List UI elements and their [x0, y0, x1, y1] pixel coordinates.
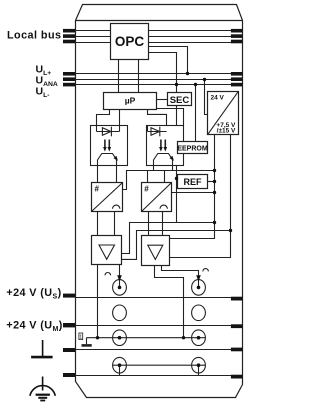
- svg-text:µP: µP: [125, 96, 136, 106]
- svg-text:/±15 V: /±15 V: [217, 128, 236, 135]
- svg-text:#: #: [144, 185, 149, 194]
- svg-text:24 V: 24 V: [211, 95, 225, 102]
- svg-text:OPC: OPC: [115, 34, 145, 49]
- svg-text:#: #: [95, 185, 100, 194]
- svg-text:Local bus: Local bus: [7, 30, 61, 42]
- svg-text:REF: REF: [184, 177, 203, 187]
- svg-text:EEPROM: EEPROM: [177, 145, 208, 152]
- svg-text:1: 1: [79, 335, 82, 341]
- svg-text:SEC: SEC: [170, 95, 190, 106]
